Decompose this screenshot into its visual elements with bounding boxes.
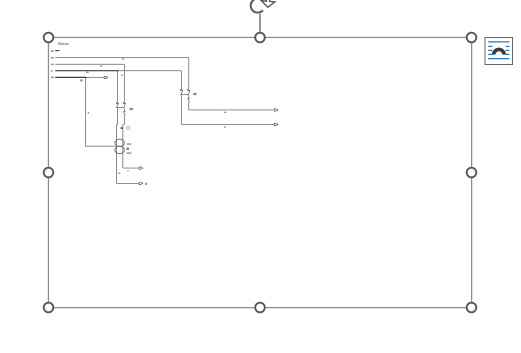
bus L2 wire [55,56,189,58]
wire Q2 left pole down [181,95,183,125]
wire label b [121,74,123,75]
rotation handle stem [259,14,261,32]
node junction on N [116,70,119,72]
bus label L1 [51,50,54,52]
wire feeder 1 [189,109,275,111]
breaker Q2 [180,89,190,103]
wire label n [118,173,120,175]
wire PE drop [86,77,116,146]
node junction on PE [84,77,87,79]
breaker label Q4 [129,108,133,110]
wire label B [88,112,90,114]
wire label on L3 [100,65,102,66]
wire label output 1 [127,170,128,171]
wire Q2 right pole down [188,95,190,110]
transformer label secondary [127,152,132,154]
bus N wire light segment [118,70,182,72]
selection handle mid-right [467,168,477,178]
selection handle top-right [467,33,477,43]
terminal arrow feeder 2 [274,123,278,125]
transformer label T1 [126,148,129,150]
breaker Q4 [116,102,126,116]
bus L1 stub [55,50,59,52]
rotation handle icon [251,0,275,13]
bus PE wire light segment [86,76,105,78]
selection handle top-center [255,33,265,43]
measuring point dot [121,127,123,129]
bus label N [51,70,53,72]
selection handle bottom-right [467,303,477,313]
selection border [48,37,471,307]
wire L3 drop to Q4 [123,64,125,103]
terminal arrow output 2 [139,182,143,184]
terminal arrow PE [104,76,108,78]
bus label L2 [51,57,54,59]
breaker label Q2 [193,93,197,95]
bus L3 wire [55,63,124,65]
selection handle bottom-center [255,303,265,313]
wire label on L2 [122,58,125,59]
transformer label primary [127,143,132,145]
wire secondary output 2 [117,182,139,184]
wire feeder 2 [182,123,275,125]
wire N junction drop to Q4 [117,71,119,104]
wire secondary output 1 [123,167,139,169]
terminal arrow output 1 [139,167,143,169]
wire Q4 left pole to transformer [117,108,118,184]
wire label PE [80,79,83,81]
layout options button [485,38,513,65]
symbol box Q1 [127,127,129,130]
bus label PE [51,77,54,79]
wire label feeder 2 [224,126,226,127]
wire label on N [86,72,89,73]
transformer T1 [115,139,125,153]
terminal arrow feeder 1 [274,109,278,111]
wire Q4 right pole to transformer [123,108,125,168]
bus label L3 [51,64,54,66]
svg-text:Bursa: Bursa [58,41,69,46]
selection handle mid-left [44,168,54,178]
bus N wire dark segment [55,70,117,72]
selection handle bottom-left [44,303,54,313]
bus PE wire dark segment [55,76,85,78]
wire label feeder 1 [224,112,226,113]
selection handle top-left [44,33,54,43]
wire L2 drop to Q2 [188,57,190,90]
wire label 2 [145,183,147,185]
wire N drop to Q2 [181,71,183,91]
